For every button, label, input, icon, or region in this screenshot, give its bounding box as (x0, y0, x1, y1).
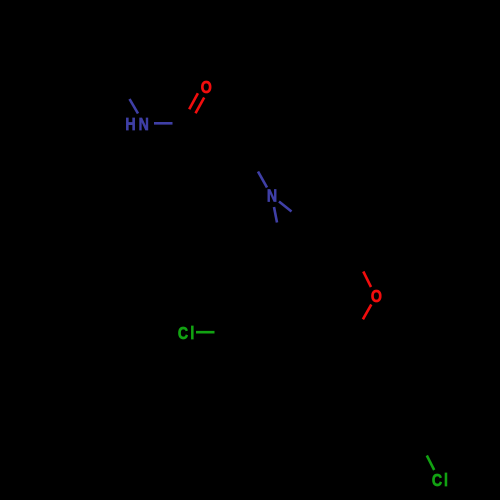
svg-text:H: H (125, 116, 135, 135)
wire: double bond C3=O1, O half line A (red) (189, 93, 198, 109)
wire: bond C5-N2, N half up-left (blue) (258, 172, 267, 188)
wire: bond C2-N1 amide, N half (blue) (130, 99, 139, 114)
wire: bond C13-Cl2, Cl half diagonal (green) (427, 456, 434, 471)
wire: double bond C3=O1, O half line B (red) (196, 98, 205, 114)
wire: bond N1-C3 amide to carbonyl, N half (blue) (154, 122, 173, 125)
svg-text:N: N (139, 116, 149, 135)
wire: bond C10-O2 ether, O half up (red) (363, 272, 371, 288)
svg-text:O: O (201, 79, 212, 98)
node Cl1: chlorine label left (178, 325, 194, 344)
svg-text:O: O (371, 288, 382, 307)
svg-text:C: C (178, 325, 188, 344)
svg-text:l: l (444, 472, 448, 491)
wire: bond N2-C7, N half down (blue) (274, 207, 277, 223)
node N1: amide nitrogen label HN (125, 116, 148, 135)
svg-text:l: l (190, 325, 194, 344)
svg-text:C: C (432, 472, 442, 491)
wire: bond C12-Cl1, Cl half horizontal (green) (196, 331, 215, 334)
wire: bond O2-C11 ether, O half down-left (red) (363, 305, 371, 320)
node Cl2: chlorine label bottom right (432, 472, 448, 491)
wire: bond N2-C6, N half down-right (blue) (279, 202, 292, 212)
svg-text:N: N (267, 187, 277, 206)
